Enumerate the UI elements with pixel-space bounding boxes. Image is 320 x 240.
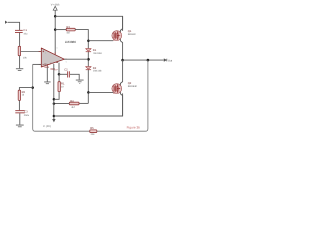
GND flag arrow xyxy=(52,117,55,122)
diode D2 xyxy=(86,67,92,71)
potentiometer P1 xyxy=(18,46,20,55)
junction R1 to bus xyxy=(53,98,56,101)
bottom rail wire xyxy=(54,93,123,116)
svg-text:LM3886: LM3886 xyxy=(65,40,76,44)
pin stub +in xyxy=(39,50,42,52)
wire op-amp gnd pin down xyxy=(46,67,48,82)
resistor R3 xyxy=(66,28,75,31)
resistor R5 xyxy=(90,130,97,133)
wire C2 to ground xyxy=(70,74,79,79)
wire pot to ground xyxy=(19,56,21,69)
wire Q1 drain from rail xyxy=(120,16,122,60)
wire D2 to Q2 gate node xyxy=(87,70,89,103)
diode D1 xyxy=(86,49,92,53)
input terminal IN xyxy=(5,21,8,24)
resistor R1 xyxy=(58,82,60,92)
junction feedback tap xyxy=(147,59,150,62)
wire R3 to gate column xyxy=(75,30,88,49)
svg-text:R3: R3 xyxy=(66,26,70,29)
wire bypass pin down xyxy=(58,63,60,75)
pin + symbol xyxy=(43,51,45,53)
wire R2 to C3 xyxy=(18,100,20,110)
ground C2 xyxy=(76,80,84,84)
ground C3 xyxy=(16,125,24,128)
wire R4 to gnd bus xyxy=(54,103,69,105)
wire node to C2 xyxy=(59,73,67,75)
wire out row xyxy=(123,59,164,61)
junction bottom rail xyxy=(53,115,56,118)
junction Q1 gate node xyxy=(87,39,90,42)
ground op-amp xyxy=(44,82,50,85)
pin stub -in xyxy=(39,63,42,65)
svg-text:R4: R4 xyxy=(70,100,74,103)
pin name marks under triangle xyxy=(44,62,58,69)
svg-text:R5: R5 xyxy=(90,127,94,130)
svg-text:IRF9630: IRF9630 xyxy=(128,85,138,88)
pin stub op-amp VS xyxy=(54,52,56,55)
junction R2 tap xyxy=(31,86,34,89)
svg-text:V+ (9V): V+ (9V) xyxy=(51,3,60,6)
junction op-amp output node xyxy=(87,58,90,61)
transistor Q1 xyxy=(112,31,122,41)
wire gnd bus pin down xyxy=(53,64,55,116)
wire top rail xyxy=(55,16,122,31)
junction Q2 gate node xyxy=(87,91,90,94)
wire node to R1 xyxy=(58,74,60,81)
wire gate column to R4 xyxy=(79,102,88,104)
pin stub op-amp gnd pin xyxy=(46,64,48,66)
wire R2 branch xyxy=(19,88,32,91)
wire feedback loop xyxy=(97,60,148,131)
svg-text:1N4148: 1N4148 xyxy=(93,70,102,73)
wire D1 to out node xyxy=(87,52,89,66)
svg-text:1N4148: 1N4148 xyxy=(93,52,102,55)
wire -in to feedback xyxy=(33,63,41,65)
transistor Q2 xyxy=(112,84,122,94)
junction out node xyxy=(121,59,124,62)
resistor R2 xyxy=(18,90,20,100)
wire Q2 drain from out node xyxy=(120,60,122,116)
pin - symbol xyxy=(43,63,45,65)
svg-text:10u: 10u xyxy=(23,32,28,35)
op-amp U1 LM386 xyxy=(41,48,64,67)
wire feedback bottom left xyxy=(33,64,90,131)
svg-text:4k7: 4k7 xyxy=(66,32,71,35)
wire V+ stem xyxy=(54,10,56,54)
capacitor C2 xyxy=(67,71,70,77)
junction V+ rail xyxy=(54,15,57,18)
wire Q1 gate xyxy=(88,40,113,42)
svg-text:V- (0V): V- (0V) xyxy=(43,125,51,128)
capacitor C3 xyxy=(15,110,24,113)
wire C3 to ground xyxy=(19,113,21,124)
wire op-amp output xyxy=(64,58,88,60)
resistor R4 xyxy=(69,102,79,105)
junction V+ R3 xyxy=(54,28,57,31)
svg-text:4k7: 4k7 xyxy=(71,106,76,109)
wire R1 to gnd bus xyxy=(54,92,59,100)
Out terminal xyxy=(164,58,167,61)
V+ supply flag xyxy=(51,3,60,10)
ground under pot xyxy=(16,68,23,71)
junction bypass node xyxy=(58,73,61,76)
junction R4 gnd bus xyxy=(53,102,56,105)
svg-text:250u: 250u xyxy=(24,114,30,117)
label C2 xyxy=(64,68,70,72)
svg-text:Out: Out xyxy=(168,59,172,62)
pin stub output xyxy=(64,58,67,60)
wire pot wiper to op-amp +in xyxy=(21,50,41,52)
wire input to C1 xyxy=(8,22,20,30)
svg-text:Figure 3b: Figure 3b xyxy=(127,125,141,129)
wire R3 row left xyxy=(55,29,66,31)
wire C1 to pot xyxy=(19,33,21,47)
wire Q2 gate xyxy=(88,91,113,93)
svg-text:C2: C2 xyxy=(64,68,68,71)
capacitor C1 xyxy=(15,30,23,33)
svg-text:IRF630: IRF630 xyxy=(128,33,137,36)
